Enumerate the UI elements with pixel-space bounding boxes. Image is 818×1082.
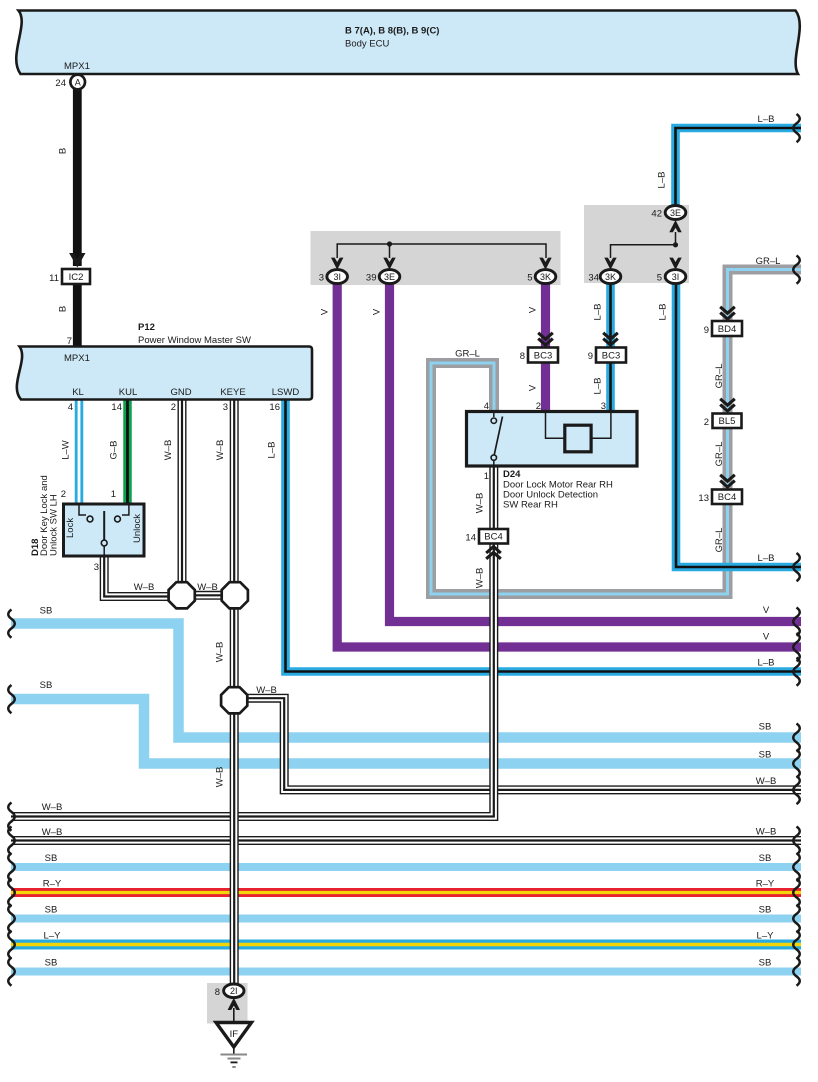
svg-text:5: 5 [527,273,532,284]
svg-text:11: 11 [49,273,59,284]
svg-text:B: B [58,148,69,154]
svg-text:39: 39 [366,273,377,284]
arrow into 3E upper [669,220,681,232]
IC2 junction box [62,269,90,284]
wire GR-L right edge through BD4 BL5 BC4 to D24 pin4 [431,270,801,595]
torn edge SB right 4 [793,905,800,933]
junction block shading box 1 (3I/3E/3K) [311,231,561,285]
svg-text:GR–L: GR–L [455,349,480,360]
svg-text:9: 9 [588,351,593,362]
connector circle 2I [224,984,244,998]
svg-text:SB: SB [40,606,53,617]
junction block shading box 2 (3E/3K/3I) [584,205,689,283]
torn edge L-B right 3 [793,658,800,686]
arrow into 2I [228,998,240,1010]
svg-text:42: 42 [651,209,662,220]
svg-text:SB: SB [759,722,772,733]
svg-text:3: 3 [319,273,324,284]
svg-text:G–B: G–B [109,440,120,459]
torn edge L-Y left [8,931,15,959]
junction J3 octagon [221,687,247,713]
wire W-B P12 GND pin2 to junction [178,399,187,595]
wire B from IC2 to P12 pin 7 [73,284,82,347]
svg-text:B 7(A), B 8(B), B 9(C): B 7(A), B 8(B), B 9(C) [345,26,439,37]
wire W-B P12 KEYE pin3 to junction [230,399,239,595]
junction block 2 busbar [611,232,676,258]
svg-text:W–B: W–B [475,493,486,514]
wire L-Y row [11,940,801,950]
svg-text:BC3: BC3 [602,350,620,361]
junction J1 octagon [169,582,195,608]
svg-text:1: 1 [111,489,116,500]
svg-text:P12: P12 [138,322,155,333]
svg-text:W–B: W–B [163,440,174,461]
chevron arrows into BC3 left [538,333,553,339]
wire SB row 5 [11,968,801,976]
svg-text:SB: SB [759,905,772,916]
wire V from 3I pin3 to right edge [337,283,801,647]
svg-text:9: 9 [704,325,709,336]
svg-text:3E: 3E [384,272,395,282]
svg-text:BC3: BC3 [534,350,552,361]
wire G-B P12 KUL pin14 to D18 pin1 [123,399,132,505]
junction box BC4 bottom [479,529,508,544]
arrow into 3K [539,258,551,270]
svg-text:Body ECU: Body ECU [345,39,389,50]
svg-text:4: 4 [68,402,73,413]
wire W-B junction down to ground connector 2I [230,700,239,985]
svg-text:14: 14 [465,533,476,544]
torn edge V right 1 [793,608,800,636]
svg-text:GND: GND [170,387,191,398]
chevron arrows into BC4 right [720,475,735,481]
arrow into 3I [331,258,343,270]
wire L-B from 3E pin42 up to right edge [676,128,802,206]
wire L-B P12 LSWD pin16 to right edge [286,399,802,672]
svg-text:W–B: W–B [197,582,218,593]
svg-text:SB: SB [45,853,58,864]
chevron arrows into BD4 [720,307,735,313]
connector circle 3K second [600,270,621,284]
junction box BC4 right [712,490,742,505]
svg-text:MPX1: MPX1 [64,61,90,72]
wire L-W P12 KL pin4 to D18 pin2 [75,399,84,505]
svg-text:W–B: W–B [756,827,777,838]
svg-text:BC4: BC4 [718,492,736,503]
svg-text:MPX1: MPX1 [64,353,90,364]
svg-text:KEYE: KEYE [220,387,245,398]
D18 Door Key Lock and Unlock SW LH box [64,504,145,556]
svg-text:3I: 3I [333,272,341,282]
svg-text:5: 5 [657,273,662,284]
svg-text:D24: D24 [503,469,521,480]
chevron arrows into BC3 right [603,333,618,339]
svg-text:Unlock: Unlock [132,514,143,543]
torn edge V right 2 [793,633,800,661]
wire SB row 4 [11,915,801,923]
wire W-B D18 pin3 to junction [104,556,182,597]
svg-text:W–B: W–B [134,582,155,593]
svg-text:W–B: W–B [42,802,63,813]
D24 motor symbol [546,413,611,438]
torn edge W-B left 1 [8,803,15,831]
svg-text:BC4: BC4 [484,532,502,543]
torn edge SB right 3 [793,853,800,881]
svg-text:IF: IF [230,1029,239,1040]
torn edge R-Y left [8,879,15,907]
svg-text:W–B: W–B [215,440,226,461]
svg-text:GR–L: GR–L [714,364,725,389]
svg-text:GR–L: GR–L [714,442,725,467]
svg-text:V: V [320,308,331,315]
svg-text:2: 2 [61,489,66,500]
svg-text:SB: SB [45,905,58,916]
wire W-B branch from junction to right edge [240,698,801,790]
svg-text:2I: 2I [230,986,238,996]
torn edge SB left 4 [8,905,15,933]
svg-text:8: 8 [520,351,525,362]
wire SB row 3 [11,863,801,871]
P12 Power Window Master SW box [17,347,312,400]
torn edge L-B mid right [793,553,800,581]
svg-text:Unlock SW LH: Unlock SW LH [49,494,60,556]
wire SB lower-left to right edge [11,699,801,764]
connector A circle [70,75,85,90]
arrow into IC2 [69,253,85,268]
svg-text:L–Y: L–Y [44,931,62,942]
svg-text:L–B: L–B [267,442,278,459]
wire L-B from 3I pin5 to right edge [676,283,801,567]
junction box BD4 [712,321,742,336]
connector circle 3I [327,270,348,284]
D18 switch internals [79,505,86,515]
svg-text:3: 3 [94,562,99,573]
wire L-B from 3K pin34 through BC3 to D24 pin3 [606,283,615,412]
svg-text:SB: SB [40,680,53,691]
junction J2 octagon [222,582,248,608]
svg-text:GR–L: GR–L [756,256,781,267]
torn edge SB left 5 [8,958,15,986]
svg-text:Lock: Lock [65,518,76,538]
svg-text:3I: 3I [672,272,680,282]
arrow into 3K second [604,258,616,270]
svg-text:34: 34 [588,273,599,284]
svg-text:V: V [372,308,383,315]
wire B from Body ECU pin 24 to IC2 [73,89,82,266]
svg-text:W–B: W–B [215,767,226,788]
svg-text:L–B: L–B [758,114,775,125]
svg-text:R–Y: R–Y [756,879,775,890]
svg-text:L–Y: L–Y [757,931,775,942]
svg-text:3E: 3E [670,208,681,218]
svg-text:L–B: L–B [593,378,604,395]
torn edge SB left 1 [8,610,15,638]
ground connector shading box (2I) [207,983,248,1024]
wire V from 3K pin5 through BC3 to D24 pin2 [541,283,550,412]
ground triangle IF [216,1023,252,1048]
svg-text:L–W: L–W [61,440,72,460]
torn edge GR-L right [793,256,800,284]
wire W-B junction to junction below [230,600,239,700]
D24 switch internals [493,413,495,417]
svg-text:L–B: L–B [658,304,669,321]
torn edge SB right 2 [793,750,800,778]
ground lead line [233,1008,235,1023]
svg-text:W–B: W–B [475,568,486,589]
svg-text:A: A [75,78,81,88]
torn edge SB right 1 [793,724,800,752]
svg-text:SB: SB [759,853,772,864]
svg-text:W–B: W–B [256,685,277,696]
torn edge SB right 5 [793,958,800,986]
wire W-B from D24 pin1 through BC4 down and left to edge [11,466,494,817]
svg-text:3K: 3K [540,272,551,282]
junction block 1 busbar [337,244,546,258]
svg-text:V: V [763,632,770,643]
svg-text:2: 2 [704,417,709,428]
wire V from 3E pin39 to right edge [390,283,802,622]
svg-text:SB: SB [45,958,58,969]
svg-text:L–B: L–B [758,658,775,669]
svg-text:L–B: L–B [758,553,775,564]
svg-text:Power Window Master SW: Power Window Master SW [138,335,251,346]
svg-text:IC2: IC2 [69,272,84,283]
torn edge SB left 3 [8,853,15,881]
junction box BC3 left [528,348,558,363]
svg-text:V: V [763,605,770,616]
svg-text:KUL: KUL [119,387,137,398]
svg-text:L–B: L–B [593,304,604,321]
svg-text:V: V [528,384,539,391]
svg-text:W–B: W–B [756,776,777,787]
D24 Door Lock Motor Rear RH box [467,412,638,467]
connector circle 3K [535,270,556,284]
svg-text:V: V [528,306,539,313]
connector circle 3E [379,270,400,284]
junction box BL5 [713,414,742,429]
chevron arrows into BL5 [720,399,735,405]
svg-text:13: 13 [698,493,709,504]
svg-text:8: 8 [215,987,220,998]
junction box BC3 right [596,348,626,363]
svg-text:16: 16 [269,402,280,413]
Body ECU box B7/B8/B9 [16,11,800,75]
torn edge L-Y right [793,931,800,959]
svg-text:KL: KL [72,387,84,398]
svg-text:GR–L: GR–L [714,528,725,553]
arrow into 3E [383,258,395,270]
svg-text:L–B: L–B [657,172,668,189]
svg-text:LSWD: LSWD [272,387,300,398]
svg-text:3: 3 [223,402,228,413]
svg-text:B: B [58,306,69,312]
svg-text:1: 1 [484,471,489,482]
connector circle 3I second [665,270,686,284]
arrow into 3I second [669,258,681,270]
svg-text:W–B: W–B [42,827,63,838]
svg-text:24: 24 [55,78,66,89]
torn edge W-B right 1 [793,776,800,804]
svg-text:3K: 3K [605,272,616,282]
svg-text:BD4: BD4 [718,324,736,335]
torn edge SB left 2 [8,685,15,713]
ground symbol [233,1047,235,1054]
svg-text:SB: SB [759,750,772,761]
torn edge W-B left 2 [8,827,15,855]
svg-text:SW Rear RH: SW Rear RH [503,500,558,511]
svg-text:SB: SB [759,958,772,969]
torn edge R-Y right [793,879,800,907]
connector circle 3E upper [665,206,686,220]
wire R-Y row [11,888,801,897]
svg-text:BL5: BL5 [719,416,736,427]
wire SB upper-left to right edge [11,624,801,738]
svg-text:14: 14 [111,402,122,413]
wire W-B full-width row [11,836,801,845]
torn edge W-B right 2 [793,827,800,855]
torn edge L-B top right [793,114,800,142]
chevron arrows into BC4 bottom [486,547,501,553]
svg-text:W–B: W–B [215,642,226,663]
svg-text:R–Y: R–Y [43,879,62,890]
svg-text:2: 2 [171,402,176,413]
wire W-B between junctions [182,591,235,600]
